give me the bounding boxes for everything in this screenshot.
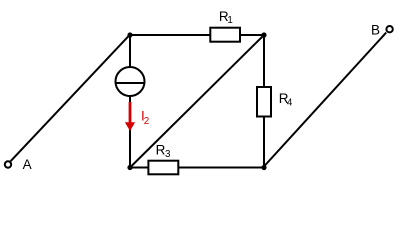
svg-text:4: 4 — [287, 98, 293, 109]
svg-text:2: 2 — [144, 116, 149, 127]
svg-text:B: B — [371, 23, 380, 38]
svg-text:A: A — [23, 157, 32, 172]
svg-text:3: 3 — [165, 149, 171, 160]
svg-text:1: 1 — [227, 15, 232, 26]
